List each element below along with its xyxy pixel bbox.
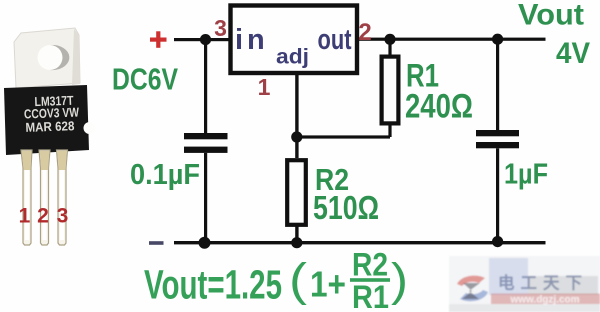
wire: R2 bottom lead	[295, 225, 298, 243]
wire: OUT pin to Vout	[356, 38, 546, 41]
svg-text:1: 1	[19, 205, 31, 228]
wire: + to IN pin	[174, 38, 231, 41]
transistor Q1 photo: LM317T TO-220 package	[4, 28, 96, 245]
svg-text:1: 1	[258, 74, 271, 100]
svg-text:1µF: 1µF	[504, 159, 548, 191]
svg-text:in: in	[235, 24, 269, 56]
plus terminal symbol	[150, 31, 167, 48]
svg-text:2: 2	[37, 205, 49, 228]
pin 2 leg	[39, 150, 50, 245]
svg-text:R1: R1	[352, 279, 389, 312]
wire: Vout junction down to C2	[496, 39, 499, 130]
wire: R1 top lead	[388, 39, 391, 56]
watermark background blocks	[449, 256, 600, 312]
pin 3 leg	[57, 150, 68, 245]
node: R2 bottom junction	[291, 237, 302, 248]
black plastic body	[4, 85, 96, 155]
svg-text:out: out	[318, 24, 352, 56]
resistor R1	[382, 57, 399, 124]
svg-text:(: (	[289, 254, 308, 306]
wire: bottom rail	[174, 241, 546, 244]
capacitor C2 1uF	[476, 130, 519, 148]
node: Vout junction	[492, 34, 503, 45]
watermark url bar	[491, 294, 600, 305]
svg-text:Vout=1.25: Vout=1.25	[144, 262, 282, 308]
op-amp U1: LM317 regulator box	[231, 6, 358, 74]
node: bottom left junction	[199, 237, 211, 249]
wire: adj junction to R1 bottom	[297, 135, 390, 138]
svg-text:510Ω: 510Ω	[313, 189, 379, 226]
svg-text:240Ω: 240Ω	[405, 88, 473, 126]
wire: C2 to bottom rail	[496, 148, 499, 242]
svg-text:电工天下: 电工天下	[498, 273, 588, 293]
svg-text:R2: R2	[352, 247, 388, 283]
node: bottom right junction	[492, 236, 503, 247]
minus terminal symbol	[149, 241, 164, 245]
svg-text:2: 2	[358, 19, 371, 46]
formula Vout=1.25(1+R2/R1)	[144, 247, 408, 312]
svg-text:MAR 628: MAR 628	[25, 118, 74, 135]
node: adj junction	[291, 131, 302, 142]
capacitor C1 0.1uF	[184, 133, 228, 153]
resistor R2	[287, 160, 306, 225]
pin 1 leg	[21, 150, 32, 245]
svg-text:DC6V: DC6V	[112, 62, 178, 97]
svg-text:Vout: Vout	[518, 0, 584, 32]
svg-text:3: 3	[57, 205, 69, 228]
svg-text:3: 3	[214, 15, 227, 41]
svg-text:): )	[391, 254, 408, 306]
svg-text:4V: 4V	[556, 37, 590, 70]
node: out junction	[384, 34, 395, 45]
svg-text:adj: adj	[276, 45, 309, 69]
wire: adj pin down	[295, 73, 298, 158]
node: input junction	[200, 34, 211, 45]
svg-text:0.1µF: 0.1µF	[130, 159, 200, 191]
svg-text:www.dgzj.com: www.dgzj.com	[509, 295, 579, 306]
svg-text:1+: 1+	[310, 264, 346, 305]
metal tab	[14, 28, 80, 88]
wire: input junction down to C1	[204, 40, 207, 134]
watermark logo	[457, 276, 488, 302]
wire: C1 to bottom rail	[204, 153, 207, 244]
wire: R1 bottom lead	[388, 124, 391, 137]
